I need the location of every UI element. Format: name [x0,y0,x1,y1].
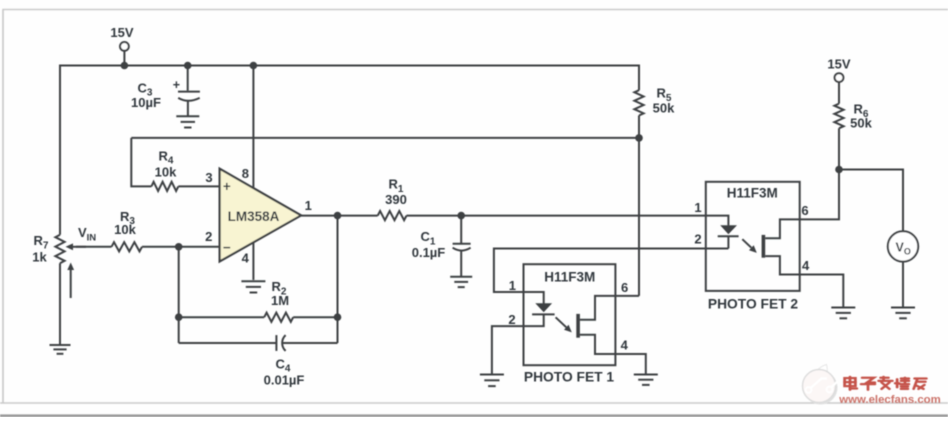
svg-text:−: − [223,240,231,255]
svg-text:1: 1 [509,278,516,293]
svg-text:+: + [223,179,231,194]
svg-text:0.01µF: 0.01µF [264,372,305,387]
svg-text:4: 4 [621,338,629,353]
svg-text:2: 2 [508,312,515,327]
svg-text:H11F3M: H11F3M [544,269,595,284]
svg-text:LM358A: LM358A [228,209,280,224]
svg-text:10µF: 10µF [131,95,161,110]
svg-text:15V: 15V [827,57,850,72]
svg-text:2: 2 [205,229,212,244]
svg-text:4: 4 [802,258,810,273]
svg-text:1k: 1k [32,250,47,265]
svg-text:1: 1 [694,200,701,215]
svg-text:50k: 50k [653,101,675,116]
svg-text:10k: 10k [155,165,177,180]
svg-text:H11F3M: H11F3M [727,186,778,201]
svg-text:50k: 50k [850,116,872,131]
svg-text:0.1µF: 0.1µF [412,245,446,260]
svg-text:390: 390 [385,192,407,207]
svg-text:+: + [173,78,180,92]
svg-text:10k: 10k [114,222,136,237]
svg-text:6: 6 [801,203,808,218]
svg-text:15V: 15V [110,25,133,40]
svg-text:3: 3 [205,170,212,185]
svg-text:4: 4 [242,250,250,265]
svg-text:8: 8 [242,166,249,181]
svg-text:PHOTO FET 2: PHOTO FET 2 [708,297,799,312]
svg-text:PHOTO FET 1: PHOTO FET 1 [524,370,615,385]
svg-text:www.elecfans.com: www.elecfans.com [838,394,941,406]
svg-text:2: 2 [694,232,701,247]
svg-text:1: 1 [305,198,312,213]
svg-text:6: 6 [621,280,628,295]
svg-text:1M: 1M [271,293,289,308]
